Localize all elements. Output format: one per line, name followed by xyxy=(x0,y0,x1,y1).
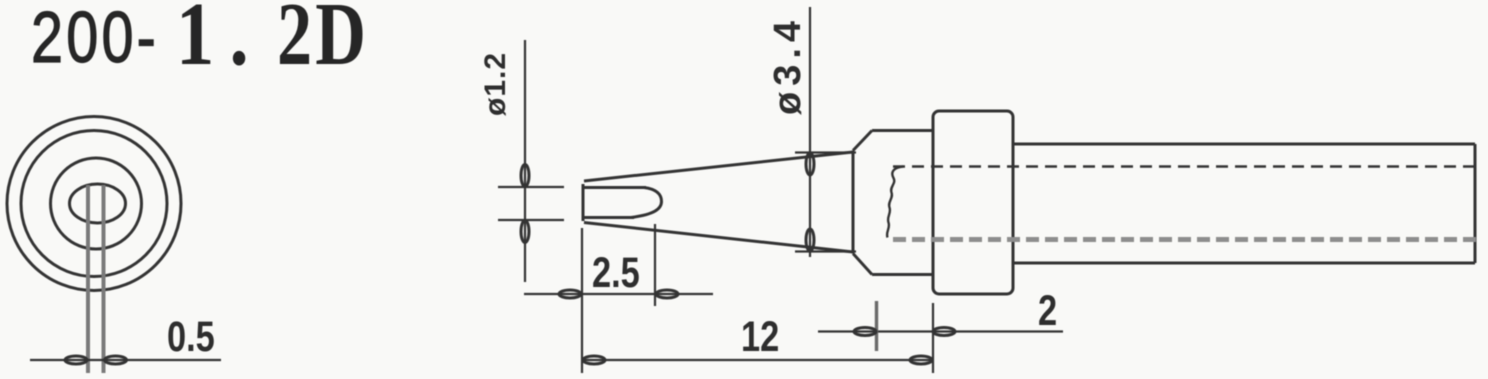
dim phi3.4 vertical line xyxy=(809,7,811,257)
front view ellipse xyxy=(70,184,126,223)
nut rectangle xyxy=(933,111,1013,294)
cone base face xyxy=(852,151,855,254)
svg-text:2: 2 xyxy=(1038,287,1057,334)
dim 0.5 left arrowhead xyxy=(65,356,87,364)
tip end face xyxy=(582,184,585,221)
tube right end face xyxy=(1474,144,1477,263)
dim 2.5 right arrowhead xyxy=(656,290,678,298)
cone top line xyxy=(584,152,853,181)
chisel edge line right (front view) xyxy=(102,185,106,373)
front view outer circle xyxy=(7,117,181,291)
dim phi1.2 top extension line xyxy=(498,186,564,188)
dim 12 right arrowhead xyxy=(910,356,932,364)
svg-text:12: 12 xyxy=(741,313,779,360)
extension line x582 (2.5 and 12) xyxy=(581,228,583,373)
dim phi1.2 vertical line xyxy=(524,40,526,282)
dim phi1.2 upper arrowhead xyxy=(521,165,529,187)
chisel flat bottom edge xyxy=(583,216,634,219)
svg-text:ø1.2: ø1.2 xyxy=(479,52,512,116)
tube top edge xyxy=(1013,143,1475,146)
front view middle circle xyxy=(21,131,167,277)
flare top line xyxy=(853,131,872,151)
dim 12 line xyxy=(582,359,933,361)
dim phi3.4 bottom extension line xyxy=(795,250,856,252)
chisel grind curve xyxy=(631,188,662,218)
chisel edge line left (front view) xyxy=(86,185,90,373)
mid cylinder top edge xyxy=(872,129,933,132)
dim 2 tick x876 xyxy=(875,301,878,351)
dim 2 line xyxy=(818,330,1063,332)
dim 2.5 line xyxy=(524,293,713,295)
svg-text:ø3.4: ø3.4 xyxy=(767,15,809,115)
dim 2 right arrowhead xyxy=(933,328,955,336)
dim 0.5 line xyxy=(30,359,221,361)
dim 0.5 right arrowhead xyxy=(105,356,127,364)
dim phi1.2 bottom extension line xyxy=(498,219,564,221)
dim 2 left arrowhead xyxy=(854,328,876,336)
dim phi3.4 top extension line xyxy=(795,151,856,153)
dim phi1.2 lower arrowhead xyxy=(521,221,529,243)
mid cylinder bottom edge xyxy=(872,273,933,276)
svg-text:0.5: 0.5 xyxy=(167,313,215,360)
dim 2.5 left arrowhead xyxy=(559,290,581,298)
dim phi3.4 upper arrowhead xyxy=(806,153,814,175)
front view inner circle xyxy=(51,158,142,249)
svg-text:2.5: 2.5 xyxy=(592,249,640,296)
upper dashed centerline xyxy=(893,165,1477,168)
chisel flat top edge xyxy=(583,186,646,189)
tube bottom edge xyxy=(1013,262,1475,265)
dim 12 left arrowhead xyxy=(583,356,605,364)
svg-text:200-: 200- xyxy=(31,0,159,77)
cone bottom line xyxy=(584,223,853,253)
extension line x933 (12 and 2) xyxy=(932,303,934,373)
extension line x655 (2.5) xyxy=(654,224,656,306)
svg-text:1.: 1. xyxy=(176,0,264,84)
break squiggle xyxy=(887,167,903,238)
svg-text:2D: 2D xyxy=(277,0,369,84)
lower dashed centerline xyxy=(893,237,1477,242)
dim phi3.4 lower arrowhead xyxy=(806,229,814,251)
flare bottom line xyxy=(853,254,872,275)
